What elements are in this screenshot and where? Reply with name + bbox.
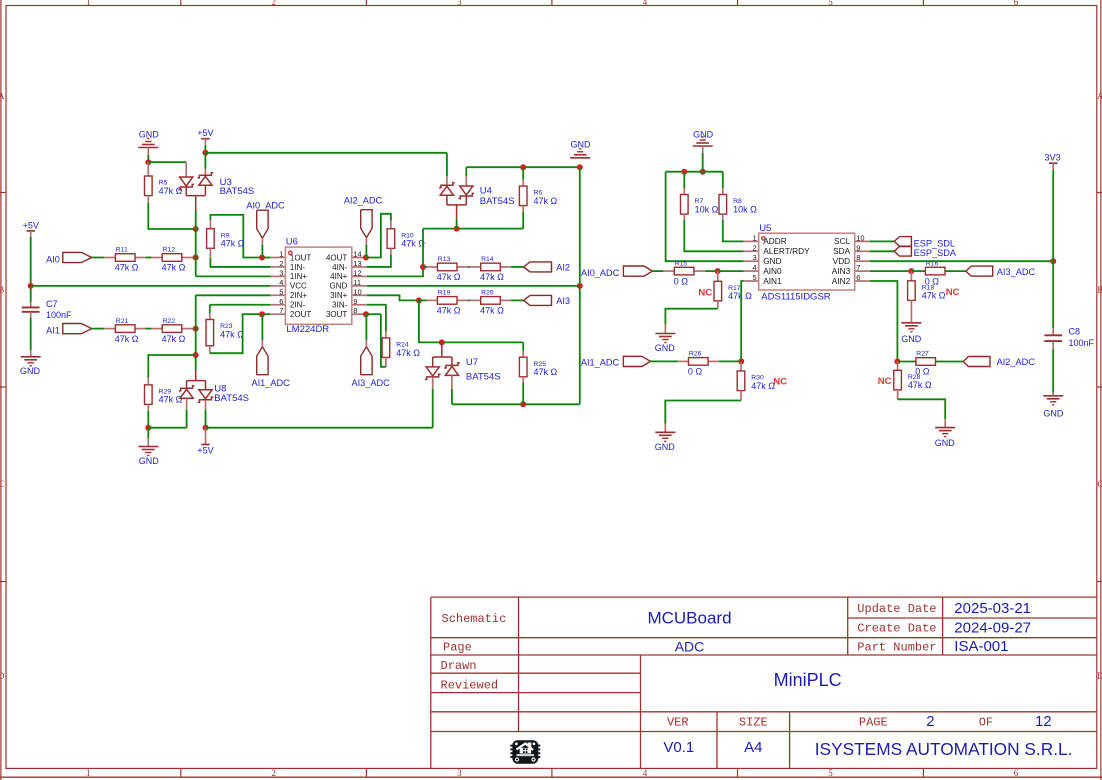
svg-text:4: 4 [643,0,648,7]
svg-text:0 Ω: 0 Ω [688,367,703,377]
svg-text:Drawn: Drawn [441,659,477,673]
svg-text:47k Ω: 47k Ω [908,380,932,390]
svg-text:3: 3 [457,768,462,778]
svg-text:47k Ω: 47k Ω [751,381,775,391]
svg-text:11: 11 [353,278,361,287]
svg-text:C8: C8 [1069,327,1081,337]
svg-text:NC: NC [946,287,960,298]
svg-text:D: D [0,671,5,681]
svg-text:R14: R14 [481,256,494,263]
svg-text:Page: Page [443,640,472,654]
svg-text:10k Ω: 10k Ω [695,204,719,214]
svg-text:1IN+: 1IN+ [290,272,307,281]
svg-text:+5V: +5V [197,446,213,456]
svg-text:+5V: +5V [197,128,213,138]
svg-text:SDA: SDA [833,246,851,256]
svg-text:3OUT: 3OUT [326,310,347,319]
svg-text:1IN-: 1IN- [290,263,305,272]
svg-text:7: 7 [856,263,860,272]
svg-text:13: 13 [353,259,361,268]
svg-text:9: 9 [353,297,357,306]
svg-text:ESP_SDA: ESP_SDA [914,248,957,258]
svg-text:10: 10 [353,287,361,296]
svg-text:AI1_ADC: AI1_ADC [581,357,620,367]
svg-text:47k Ω: 47k Ω [922,291,946,301]
svg-text:6: 6 [1014,0,1019,7]
svg-text:14: 14 [353,250,361,259]
svg-text:AI1: AI1 [46,325,60,335]
svg-text:A: A [0,91,5,101]
svg-text:AI3_ADC: AI3_ADC [997,267,1036,277]
svg-text:3: 3 [279,268,283,277]
svg-text:47k Ω: 47k Ω [401,239,425,249]
svg-text:3IN+: 3IN+ [330,291,347,300]
svg-text:1: 1 [86,768,91,778]
svg-text:12: 12 [1035,713,1052,730]
svg-text:ISA-001: ISA-001 [954,638,1008,655]
svg-text:Update Date: Update Date [857,602,936,616]
svg-text:C: C [1097,479,1102,489]
svg-text:47k Ω: 47k Ω [534,196,558,206]
svg-text:C: C [0,479,4,489]
svg-text:2025-03-21: 2025-03-21 [954,600,1031,617]
svg-text:VER: VER [667,715,689,729]
svg-text:47k Ω: 47k Ω [728,291,752,301]
svg-text:47k Ω: 47k Ω [115,263,139,273]
svg-text:VDD: VDD [833,256,851,266]
svg-text:1: 1 [279,250,283,259]
svg-text:GND: GND [693,130,714,140]
svg-text:AI2_ADC: AI2_ADC [344,195,383,205]
svg-text:C7: C7 [46,299,58,309]
svg-text:4IN+: 4IN+ [330,272,347,281]
svg-text:8: 8 [353,306,357,315]
svg-text:1: 1 [753,233,757,242]
svg-text:AIN2: AIN2 [832,276,851,286]
svg-text:0 Ω: 0 Ω [674,276,689,286]
svg-text:NC: NC [878,376,892,387]
svg-text:Schematic: Schematic [442,612,507,626]
svg-text:47k Ω: 47k Ω [437,272,461,282]
svg-text:3: 3 [753,253,757,262]
svg-text:47k Ω: 47k Ω [480,306,504,316]
svg-text:6: 6 [1014,768,1019,778]
svg-text:NC: NC [773,376,787,387]
svg-text:AI3: AI3 [556,296,570,306]
svg-text:PAGE: PAGE [859,715,888,729]
svg-text:R13: R13 [438,256,451,263]
svg-text:R27: R27 [916,351,929,358]
svg-text:GND: GND [901,334,922,344]
svg-text:2: 2 [753,243,757,252]
svg-text:4OUT: 4OUT [326,253,347,262]
svg-text:Part Number: Part Number [857,640,936,654]
svg-text:3V3: 3V3 [1044,153,1060,163]
svg-text:U7: U7 [466,357,478,368]
svg-text:U4: U4 [480,186,492,197]
svg-text:AI1_ADC: AI1_ADC [251,378,290,388]
svg-text:4: 4 [753,263,757,272]
svg-text:1: 1 [86,0,91,7]
svg-text:6: 6 [279,297,283,306]
svg-text:4: 4 [643,768,648,778]
svg-text:GND: GND [655,343,676,353]
svg-text:47k Ω: 47k Ω [162,334,186,344]
svg-text:ADS1115IDGSR: ADS1115IDGSR [761,291,830,302]
svg-text:Create Date: Create Date [857,621,936,635]
svg-text:R26: R26 [689,351,702,358]
svg-text:AI3_ADC: AI3_ADC [351,378,390,388]
svg-text:4IN-: 4IN- [332,263,347,272]
svg-text:SCL: SCL [834,236,851,246]
svg-text:5: 5 [828,0,833,7]
svg-text:47k Ω: 47k Ω [159,395,183,405]
svg-text:8: 8 [856,253,860,262]
svg-text:BAT54S: BAT54S [480,196,515,207]
svg-text:ADDR: ADDR [763,236,787,246]
svg-text:R11: R11 [116,247,128,254]
svg-text:GND: GND [1043,409,1064,419]
svg-text:B: B [1097,285,1102,295]
svg-text:47k Ω: 47k Ω [159,186,183,196]
svg-text:10k Ω: 10k Ω [733,204,757,214]
svg-text:12: 12 [353,268,361,277]
svg-text:2IN+: 2IN+ [290,291,307,300]
svg-text:47k Ω: 47k Ω [221,239,245,249]
svg-text:V0.1: V0.1 [663,739,694,756]
svg-text:GND: GND [763,256,781,266]
svg-text:U5: U5 [759,223,771,234]
svg-text:B: B [0,285,4,295]
svg-text:GND: GND [139,129,160,139]
svg-text:AI0: AI0 [46,254,60,264]
svg-text:47k Ω: 47k Ω [480,272,504,282]
svg-text:BAT54S: BAT54S [214,393,249,404]
svg-text:2IN-: 2IN- [290,301,305,310]
svg-text:MCUBoard: MCUBoard [647,609,731,628]
svg-text:1OUT: 1OUT [290,253,311,262]
svg-text:47k Ω: 47k Ω [115,334,139,344]
svg-text:VCC: VCC [290,282,307,291]
svg-text:R12: R12 [163,247,176,254]
svg-text:R20: R20 [481,290,494,297]
svg-text:GND: GND [139,456,160,466]
svg-text:ADC: ADC [675,639,705,655]
svg-text:MiniPLC: MiniPLC [774,670,842,690]
svg-text:3IN-: 3IN- [332,301,347,310]
svg-text:2: 2 [272,768,277,778]
svg-text:R21: R21 [116,318,129,325]
svg-text:47k Ω: 47k Ω [162,263,186,273]
svg-text:2OUT: 2OUT [290,310,311,319]
svg-text:A: A [1097,91,1102,101]
svg-text:47k Ω: 47k Ω [437,306,461,316]
svg-text:NC: NC [698,287,712,298]
svg-text:OF: OF [979,715,993,729]
svg-text:47k Ω: 47k Ω [220,329,244,339]
svg-text:2: 2 [279,259,283,268]
svg-text:AI0_ADC: AI0_ADC [246,200,285,210]
svg-text:AI2_ADC: AI2_ADC [997,357,1036,367]
svg-text:9: 9 [856,243,860,252]
svg-text:+5V: +5V [23,220,39,230]
svg-text:GND: GND [20,366,41,376]
svg-text:5: 5 [828,768,833,778]
svg-text:R19: R19 [438,290,451,297]
svg-text:SIZE: SIZE [739,715,768,729]
svg-text:5: 5 [753,273,757,282]
svg-text:AI2: AI2 [556,262,570,272]
svg-text:AIN1: AIN1 [763,276,782,286]
svg-text:100nF: 100nF [46,310,72,320]
svg-text:5: 5 [279,287,283,296]
svg-text:A4: A4 [744,739,762,756]
svg-text:Reviewed: Reviewed [441,678,499,692]
svg-text:7: 7 [279,306,283,315]
svg-text:LM224DR: LM224DR [286,324,329,335]
svg-text:AI0_ADC: AI0_ADC [581,268,620,278]
svg-text:GND: GND [571,139,592,149]
svg-text:100nF: 100nF [1069,338,1095,348]
svg-text:D: D [1097,671,1102,681]
svg-text:BAT54S: BAT54S [220,186,255,197]
svg-text:R15: R15 [675,260,688,267]
svg-text:3: 3 [457,0,462,7]
svg-text:BAT54S: BAT54S [466,371,501,382]
svg-text:10: 10 [856,233,864,242]
svg-text:ISYSTEMS AUTOMATION S.R.L.: ISYSTEMS AUTOMATION S.R.L. [815,739,1073,759]
svg-text:47k Ω: 47k Ω [396,348,420,358]
svg-text:R22: R22 [163,318,176,325]
svg-text:4: 4 [279,278,283,287]
svg-text:6: 6 [856,273,860,282]
svg-text:GND: GND [935,438,956,448]
svg-text:ALERT/RDY: ALERT/RDY [763,246,810,256]
svg-text:2: 2 [926,713,934,730]
svg-text:R16: R16 [926,260,939,267]
svg-text:U6: U6 [286,236,298,247]
svg-text:2024-09-27: 2024-09-27 [954,619,1031,636]
svg-text:AIN3: AIN3 [832,266,851,276]
svg-text:GND: GND [655,442,676,452]
svg-text:47k Ω: 47k Ω [534,367,558,377]
svg-text:GND: GND [330,282,348,291]
svg-text:AIN0: AIN0 [763,266,782,276]
svg-text:2: 2 [272,0,277,7]
svg-text:ESP_SDL: ESP_SDL [914,238,955,248]
